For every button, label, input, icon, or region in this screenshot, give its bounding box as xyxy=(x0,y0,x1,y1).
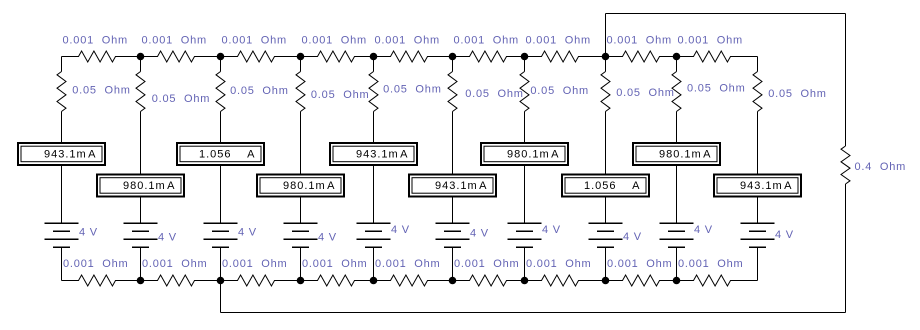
svg-text:0.001 Ohm: 0.001 Ohm xyxy=(607,35,672,47)
svg-text:1.056: 1.056 xyxy=(584,180,617,192)
resistor Rs3 0.05 Ohm (branch 3 series resistor) xyxy=(216,72,225,112)
wire (top bus to Rs3) xyxy=(220,57,222,72)
wire (ammeter U5 to battery V5) xyxy=(373,166,375,223)
svg-text:0.001 Ohm: 0.001 Ohm xyxy=(142,35,207,47)
resistor Rs2 0.05 Ohm (branch 2 series resistor) xyxy=(136,72,145,112)
wire (bottom rail up to node bottom 2) xyxy=(220,281,222,313)
wire (Rs6 to ammeter U6) xyxy=(452,112,454,174)
svg-text:980.1m: 980.1m xyxy=(507,149,550,161)
ammeter U10 reading 943.1mA xyxy=(714,175,801,197)
resistor Rs8 0.05 Ohm (branch 8 series resistor) xyxy=(601,72,610,112)
junction node top 5 xyxy=(449,53,457,61)
resistor Rtop6 0.001 Ohm (top bus segment 6) xyxy=(453,51,525,62)
ammeter U9 reading 980.1mA xyxy=(633,143,720,165)
svg-text:0.001 Ohm: 0.001 Ohm xyxy=(526,35,591,47)
svg-text:A: A xyxy=(327,180,335,192)
resistor Rs10 0.05 Ohm (branch 10 series resistor) xyxy=(753,72,762,112)
wire (top bus to Rs10) xyxy=(757,57,759,72)
svg-text:0.4 Ohm: 0.4 Ohm xyxy=(855,161,907,173)
battery V7 4 V (branch 7) xyxy=(508,223,542,247)
svg-text:4 V: 4 V xyxy=(391,224,410,236)
svg-text:0.001 Ohm: 0.001 Ohm xyxy=(302,35,367,47)
ammeter U2 reading 980.1mA xyxy=(97,175,184,197)
resistor Rs5 0.05 Ohm (branch 5 series resistor) xyxy=(369,72,378,112)
resistor Rtop3 0.001 Ohm (top bus segment 3) xyxy=(221,51,301,62)
svg-text:A: A xyxy=(784,180,792,192)
svg-text:980.1m: 980.1m xyxy=(123,180,166,192)
junction node top 6 xyxy=(521,53,529,61)
resistor Rbot1 0.001 Ohm (bottom bus segment 1) xyxy=(62,275,141,286)
svg-text:4 V: 4 V xyxy=(79,227,98,239)
wire (Rs4 to ammeter U4) xyxy=(300,112,302,174)
wire (top rail to load) xyxy=(606,13,846,15)
svg-text:0.05 Ohm: 0.05 Ohm xyxy=(687,83,746,95)
svg-text:980.1m: 980.1m xyxy=(283,180,326,192)
svg-text:4 V: 4 V xyxy=(623,231,642,243)
junction node bottom 3 xyxy=(297,277,305,285)
wire (top bus to Rs8) xyxy=(605,57,607,72)
resistor Rbot6 0.001 Ohm (bottom bus segment 6) xyxy=(453,275,525,286)
wire (ammeter U6 to battery V6) xyxy=(452,198,454,224)
svg-text:4 V: 4 V xyxy=(238,227,257,239)
wire (battery V5 to bottom bus) xyxy=(373,247,375,280)
ammeter U1 reading 943.1mA xyxy=(18,143,105,165)
svg-text:A: A xyxy=(88,149,96,161)
wire (top bus to Rs5) xyxy=(373,57,375,72)
battery V3 4 V (branch 3) xyxy=(204,223,238,247)
junction node top 1 xyxy=(137,53,145,61)
wire (top bus to Rs4) xyxy=(300,57,302,72)
wire (battery V4 to bottom bus) xyxy=(300,247,302,280)
wire (bottom rail) xyxy=(221,312,846,314)
svg-text:0.001 Ohm: 0.001 Ohm xyxy=(63,35,128,47)
wire (battery V6 to bottom bus) xyxy=(452,247,454,280)
svg-text:0.001 Ohm: 0.001 Ohm xyxy=(375,258,440,270)
wire (battery V9 to bottom bus) xyxy=(676,247,678,280)
wire (ammeter U4 to battery V4) xyxy=(300,198,302,224)
junction node top 2 xyxy=(217,53,225,61)
ammeter U5 reading 943.1mA xyxy=(330,143,417,165)
wire (battery V7 to bottom bus) xyxy=(524,247,526,280)
svg-text:0.001 Ohm: 0.001 Ohm xyxy=(607,258,672,270)
svg-text:0.001 Ohm: 0.001 Ohm xyxy=(222,35,287,47)
wire (ammeter U7 to battery V7) xyxy=(524,166,526,223)
battery V9 4 V (branch 9) xyxy=(660,223,694,247)
svg-text:A: A xyxy=(247,149,255,161)
wire (Rs3 to ammeter U3) xyxy=(220,112,222,143)
junction node top 8 xyxy=(673,53,681,61)
battery V5 4 V (branch 5) xyxy=(357,223,391,247)
ammeter U3 reading 1.056A xyxy=(177,143,264,165)
svg-text:A: A xyxy=(167,180,175,192)
wire (battery V8 to bottom bus) xyxy=(605,247,607,280)
svg-text:943.1m: 943.1m xyxy=(740,180,783,192)
wire (ammeter U9 to battery V9) xyxy=(676,166,678,223)
wire (ammeter U3 to battery V3) xyxy=(220,166,222,223)
resistor Rs9 0.05 Ohm (branch 9 series resistor) xyxy=(672,72,681,112)
junction node top 4 xyxy=(370,53,378,61)
resistor Rtop9 0.001 Ohm (top bus segment 9) xyxy=(677,51,758,62)
wire (Rs8 to ammeter U8) xyxy=(605,112,607,174)
junction node bottom 4 xyxy=(370,277,378,285)
svg-text:0.001 Ohm: 0.001 Ohm xyxy=(454,258,519,270)
resistor Rtop4 0.001 Ohm (top bus segment 4) xyxy=(301,51,374,62)
svg-text:0.001 Ohm: 0.001 Ohm xyxy=(526,258,591,270)
resistor Rtop5 0.001 Ohm (top bus segment 5) xyxy=(374,51,453,62)
junction node top 7 xyxy=(602,53,610,61)
wire (node top 7 up to top rail) xyxy=(605,14,607,57)
junction node top 3 xyxy=(297,53,305,61)
battery V2 4 V (branch 2) xyxy=(124,223,158,247)
ammeter U8 reading 1.056A xyxy=(562,175,649,197)
wire (Rs1 to ammeter U1) xyxy=(61,112,63,143)
battery V8 4 V (branch 8) xyxy=(589,223,623,247)
resistor Rtop8 0.001 Ohm (top bus segment 8) xyxy=(606,51,677,62)
resistor Rs7 0.05 Ohm (branch 7 series resistor) xyxy=(520,72,529,112)
wire (load resistor down right rail) xyxy=(845,184,847,313)
svg-text:A: A xyxy=(703,149,711,161)
svg-text:0.05 Ohm: 0.05 Ohm xyxy=(72,84,131,96)
wire (ammeter U10 to battery V10) xyxy=(757,198,759,224)
wire (top bus to Rs9) xyxy=(676,57,678,72)
svg-text:0.001 Ohm: 0.001 Ohm xyxy=(302,258,367,270)
wire (right rail down to load resistor) xyxy=(845,14,847,147)
svg-text:0.05 Ohm: 0.05 Ohm xyxy=(465,88,524,100)
wire (Rs7 to ammeter U7) xyxy=(524,112,526,143)
junction node bottom 8 xyxy=(673,277,681,285)
svg-text:4 V: 4 V xyxy=(775,229,794,241)
wire (Rs10 to ammeter U10) xyxy=(757,112,759,174)
svg-text:4 V: 4 V xyxy=(542,224,561,236)
wire (top bus to Rs1) xyxy=(61,57,63,72)
svg-text:4 V: 4 V xyxy=(470,228,489,240)
ammeter U7 reading 980.1mA xyxy=(481,143,568,165)
svg-text:A: A xyxy=(400,149,408,161)
svg-text:0.05 Ohm: 0.05 Ohm xyxy=(152,93,211,105)
wire (ammeter U1 to battery V1) xyxy=(61,166,63,223)
junction node bottom 6 xyxy=(521,277,529,285)
svg-text:A: A xyxy=(632,180,640,192)
resistor Rbot7 0.001 Ohm (bottom bus segment 7) xyxy=(525,275,606,286)
svg-text:A: A xyxy=(479,180,487,192)
resistor Rbot9 0.001 Ohm (bottom bus segment 9) xyxy=(677,275,758,286)
ammeter U6 reading 943.1mA xyxy=(409,175,496,197)
wire (Rs5 to ammeter U5) xyxy=(373,112,375,143)
battery V1 4 V (branch 1) xyxy=(45,223,79,247)
svg-text:980.1m: 980.1m xyxy=(659,149,702,161)
wire (top bus to Rs6) xyxy=(452,57,454,72)
junction node bottom 7 xyxy=(602,277,610,285)
wire (battery V2 to bottom bus) xyxy=(140,247,142,280)
svg-text:0.001 Ohm: 0.001 Ohm xyxy=(142,258,207,270)
svg-text:0.001 Ohm: 0.001 Ohm xyxy=(222,258,287,270)
junction node bottom 5 xyxy=(449,277,457,285)
resistor Rs4 0.05 Ohm (branch 4 series resistor) xyxy=(296,72,305,112)
junction node bottom 1 xyxy=(137,277,145,285)
svg-text:0.001 Ohm: 0.001 Ohm xyxy=(454,35,519,47)
battery V4 4 V (branch 4) xyxy=(284,223,318,247)
svg-text:4 V: 4 V xyxy=(318,232,337,244)
wire (battery V1 to bottom bus) xyxy=(61,247,63,280)
wire (Rs9 to ammeter U9) xyxy=(676,112,678,143)
svg-text:0.05 Ohm: 0.05 Ohm xyxy=(383,84,442,96)
wire (Rs2 to ammeter U2) xyxy=(140,112,142,174)
resistor Rbot2 0.001 Ohm (bottom bus segment 2) xyxy=(141,275,221,286)
svg-text:A: A xyxy=(551,149,559,161)
battery V10 4 V (branch 10) xyxy=(741,223,775,247)
resistor Rbot8 0.001 Ohm (bottom bus segment 8) xyxy=(606,275,677,286)
svg-text:943.1m: 943.1m xyxy=(44,149,87,161)
svg-text:0.05 Ohm: 0.05 Ohm xyxy=(616,87,675,99)
resistor Rs6 0.05 Ohm (branch 6 series resistor) xyxy=(448,72,457,112)
junction node bottom 2 xyxy=(217,277,225,285)
svg-text:943.1m: 943.1m xyxy=(435,180,478,192)
svg-text:0.001 Ohm: 0.001 Ohm xyxy=(375,35,440,47)
resistor Rtop7 0.001 Ohm (top bus segment 7) xyxy=(525,51,606,62)
wire (battery V10 to bottom bus) xyxy=(757,247,759,280)
wire (ammeter U8 to battery V8) xyxy=(605,198,607,224)
svg-text:1.056: 1.056 xyxy=(199,149,232,161)
svg-text:0.001 Ohm: 0.001 Ohm xyxy=(63,258,128,270)
resistor Rtop2 0.001 Ohm (top bus segment 2) xyxy=(141,51,221,62)
svg-text:943.1m: 943.1m xyxy=(356,149,399,161)
resistor Rs1 0.05 Ohm (branch 1 series resistor) xyxy=(57,72,66,112)
svg-text:4 V: 4 V xyxy=(694,224,713,236)
battery V6 4 V (branch 6) xyxy=(436,223,470,247)
wire (ammeter U2 to battery V2) xyxy=(140,198,142,224)
svg-text:0.05 Ohm: 0.05 Ohm xyxy=(311,89,370,101)
resistor Rbot4 0.001 Ohm (bottom bus segment 4) xyxy=(301,275,374,286)
resistor Rload 0.4 Ohm xyxy=(841,146,850,184)
resistor Rbot5 0.001 Ohm (bottom bus segment 5) xyxy=(374,275,453,286)
svg-text:0.05 Ohm: 0.05 Ohm xyxy=(768,88,827,100)
svg-text:0.001 Ohm: 0.001 Ohm xyxy=(678,258,743,270)
wire (top bus to Rs7) xyxy=(524,57,526,72)
svg-text:0.001 Ohm: 0.001 Ohm xyxy=(678,35,743,47)
svg-text:0.05 Ohm: 0.05 Ohm xyxy=(230,85,289,97)
wire (battery V3 to bottom bus) xyxy=(220,247,222,280)
svg-text:4 V: 4 V xyxy=(158,232,177,244)
wire (top bus to Rs2) xyxy=(140,57,142,72)
resistor Rtop1 0.001 Ohm (top bus segment 1) xyxy=(62,51,141,62)
svg-text:0.05 Ohm: 0.05 Ohm xyxy=(530,85,589,97)
ammeter U4 reading 980.1mA xyxy=(257,175,344,197)
resistor Rbot3 0.001 Ohm (bottom bus segment 3) xyxy=(221,275,301,286)
